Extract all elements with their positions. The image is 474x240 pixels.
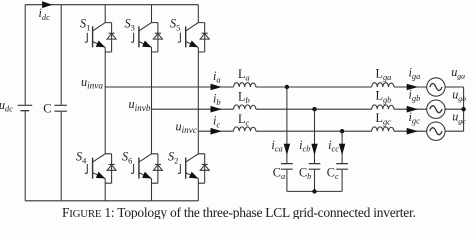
node phase c filter tap [340,129,344,133]
transistor S1 IGBT with antiparallel diode [85,23,116,52]
wire phase c middle [256,130,372,132]
wire leg2 collector from top bus [151,5,153,23]
arrow i_ca [284,144,290,156]
wire filter branch a lower [286,170,288,192]
node filter star point [312,189,316,193]
wire filter branch b lower [314,170,316,192]
arrow i_b [211,106,222,113]
wire filter branch c upper [341,131,343,163]
wire phase a inverter side [105,86,233,88]
wire left DC rail lower [24,111,26,201]
arrow i_dc direction [42,1,52,8]
arrow i_ga [407,84,418,91]
wire phase b inverter side [152,108,234,110]
wire leg1 emitter to bottom bus [104,179,106,201]
arrow i_gc [407,128,418,135]
arrow i_a [211,84,222,91]
wire phase b to grid bus [445,108,464,110]
capacitor C_a plates [281,164,293,170]
node phase b filter tap [312,107,316,111]
wire phase c grid side [394,130,427,132]
arrow i_cb [311,144,317,156]
inductor L_b [234,105,256,109]
ac source u_gb [427,100,445,118]
capacitor C_b plates [309,164,321,170]
node phase a filter tap [285,85,289,89]
inductor L_ga [372,83,394,87]
wire left DC rail upper [24,5,26,105]
transistor S4 IGBT with antiparallel diode [85,154,116,183]
wire phase a grid side [394,86,427,88]
source u_dc battery plates [18,104,33,106]
wire leg2 midsection [151,47,153,154]
wire bottom DC bus [25,200,198,202]
arrow i_gb [407,106,418,113]
wire leg2 emitter to bottom bus [151,179,153,201]
wire leg3 emitter to bottom bus [197,179,199,201]
wire phase b grid side [394,108,427,110]
inductor L_gb [372,105,394,109]
wire grid neutral bus [463,87,465,131]
node grid bus junction [461,107,465,111]
wire phase c inverter side [198,130,233,132]
wire filter branch b upper [314,109,316,163]
wire top DC bus [25,4,198,6]
wire leg3 midsection [197,47,199,154]
svg-text:C: C [43,101,51,115]
capacitor C_c plates [336,164,348,170]
capacitor C plates [54,105,67,111]
wire phase c to grid bus [445,130,464,132]
transistor S5 IGBT with antiparallel diode [178,23,209,52]
wire phase a middle [256,86,372,88]
wire dc-link cap branch lower [60,112,62,201]
transistor S2 IGBT with antiparallel diode [178,154,209,183]
wire leg3 collector from top bus [197,5,199,23]
wire dc-link cap branch upper [60,5,62,105]
transistor S6 IGBT with antiparallel diode [131,154,162,183]
transistor S3 IGBT with antiparallel diode [131,23,162,52]
wire filter branch a upper [286,87,288,163]
arrow i_cc [339,144,345,156]
wire leg1 collector from top bus [104,5,106,23]
wire leg1 midsection [104,47,106,154]
wire phase a to grid bus [445,86,464,88]
wire filter branch c lower [341,170,343,192]
inductor L_gc [372,127,394,131]
inductor L_a [234,83,256,87]
ac source u_gc [427,122,445,140]
inductor L_c [234,127,256,131]
ac source u_ga [427,78,445,96]
arrow i_c [211,128,222,135]
svg-text:FIGURE 1: Topology of the thre: FIGURE 1: Topology of the three-phase LC… [62,205,416,219]
wire phase b middle [256,108,372,110]
wire filter common bus [287,190,342,192]
